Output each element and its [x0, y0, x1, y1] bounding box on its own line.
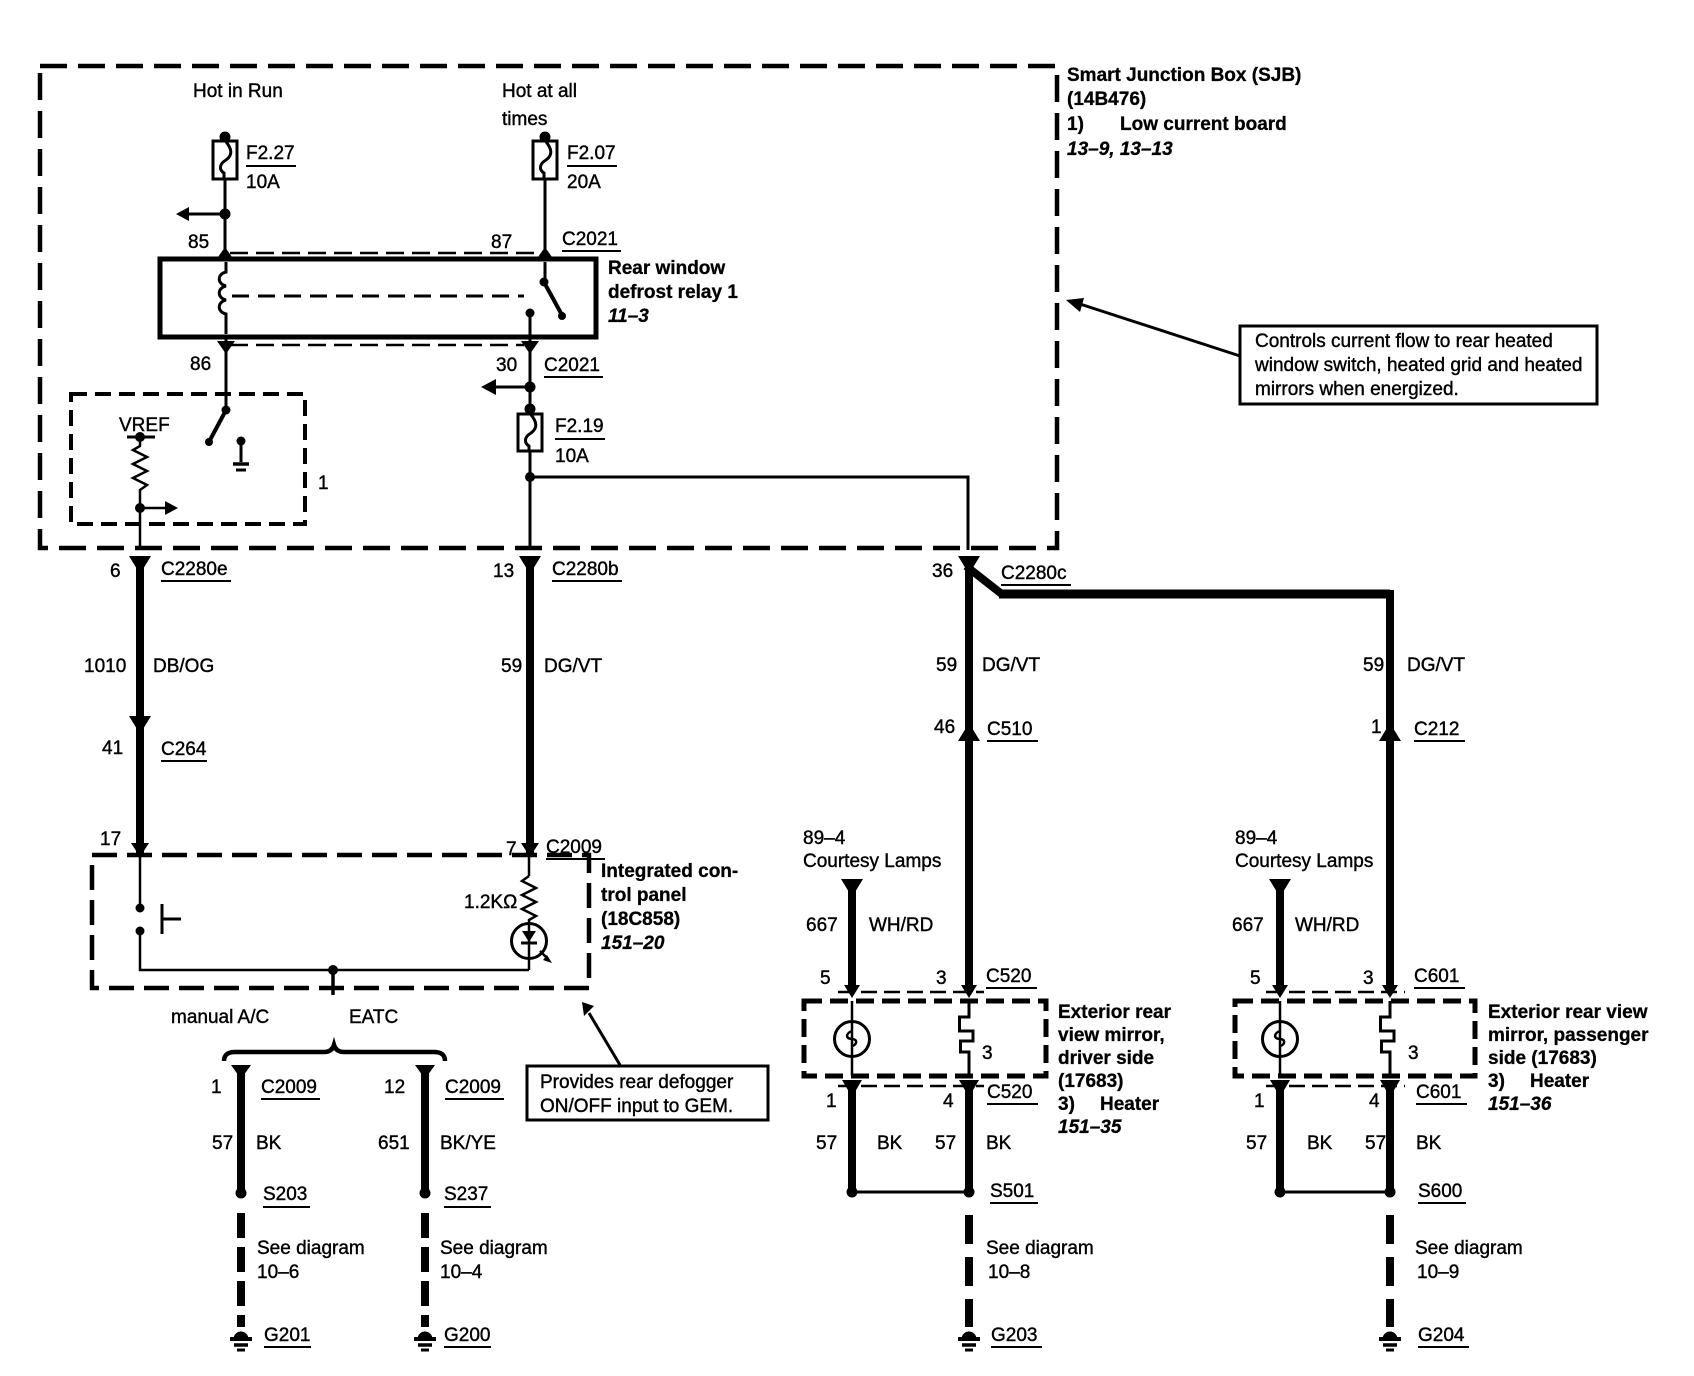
svg-text:trol panel: trol panel — [601, 885, 687, 906]
ICP name label — [601, 861, 738, 954]
ground G201 — [230, 1332, 252, 1351]
wire S501 to ground (off-page dashed) — [965, 1215, 973, 1327]
svg-text:DG/VT: DG/VT — [1407, 655, 1465, 676]
svg-text:1: 1 — [318, 473, 329, 494]
fuse F2.27 value label — [246, 143, 295, 193]
wire circuit 57 BK (passenger lamp) — [1276, 1083, 1284, 1192]
svg-text:89–4: 89–4 — [803, 828, 846, 849]
courtesy lamps feed label (driver) — [803, 828, 941, 872]
splice S600 — [1275, 1187, 1286, 1198]
svg-text:59: 59 — [936, 655, 957, 676]
svg-text:Rear window: Rear window — [608, 258, 725, 279]
pin 5 arrowhead — [844, 985, 860, 998]
svg-text:manual A/C: manual A/C — [171, 1007, 269, 1028]
svg-text:151–35: 151–35 — [1058, 1117, 1122, 1138]
svg-text:G204: G204 — [1418, 1325, 1465, 1346]
connector C2009 pin 12 — [384, 1077, 501, 1098]
svg-text:(17683): (17683) — [1058, 1071, 1124, 1092]
mirror name label (passenger) — [1488, 1002, 1649, 1115]
wire circuit 57 BK (passenger heater) — [1386, 1083, 1394, 1192]
svg-text:651: 651 — [378, 1133, 410, 1154]
svg-text:WH/RD: WH/RD — [869, 915, 933, 936]
connector C2280c pin 36 — [932, 561, 1067, 584]
wire F2.19 node to C2280c (horizontal) — [530, 477, 968, 550]
svg-text:defrost relay 1: defrost relay 1 — [608, 282, 738, 303]
svg-text:mirrors when energized.: mirrors when energized. — [1255, 379, 1459, 400]
svg-text:See diagram: See diagram — [986, 1238, 1094, 1259]
resistor 1.2K ohm — [528, 856, 531, 876]
svg-text:C2280b: C2280b — [552, 559, 619, 580]
Integrated control panel box — [92, 855, 589, 988]
svg-text:59: 59 — [1363, 655, 1384, 676]
svg-text:S203: S203 — [263, 1184, 307, 1205]
svg-text:3: 3 — [982, 1043, 993, 1064]
VREF terminal — [127, 436, 155, 439]
wire circuit 667 WH/RD (passenger) — [1276, 886, 1284, 986]
svg-text:5: 5 — [1250, 968, 1261, 989]
svg-text:C2021: C2021 — [562, 229, 618, 250]
EATC tap node — [328, 965, 338, 975]
pin 4 arrowhead (C520) — [959, 1080, 979, 1097]
power feed label: Hot at all times — [502, 81, 577, 130]
wire circuit 59 DG/VT (passenger run) — [1363, 655, 1465, 676]
svg-text:(14B476): (14B476) — [1067, 89, 1146, 110]
svg-text:6: 6 — [110, 561, 121, 582]
svg-text:41: 41 — [102, 738, 123, 759]
svg-text:C601: C601 — [1414, 966, 1459, 987]
svg-text:151–36: 151–36 — [1488, 1094, 1552, 1115]
branch wire with arrow (to GEM sense) — [140, 507, 167, 510]
pin 87 arrowhead — [536, 247, 554, 260]
pin 86 arrowhead — [217, 341, 235, 354]
svg-text:10–4: 10–4 — [440, 1262, 483, 1283]
callout arrow to SJB — [1080, 304, 1240, 356]
svg-text:4: 4 — [1369, 1091, 1380, 1112]
connector C2021 dashed line (top) — [230, 252, 540, 255]
svg-text:Integrated con-: Integrated con- — [601, 861, 738, 882]
svg-text:87: 87 — [491, 232, 512, 253]
connector C510 pin 46 — [934, 717, 1032, 740]
svg-text:S600: S600 — [1418, 1181, 1462, 1202]
branch wire with arrow at node 30 — [494, 386, 530, 389]
wire S600 to ground (off-page dashed) — [1386, 1215, 1394, 1327]
svg-text:WH/RD: WH/RD — [1295, 915, 1359, 936]
connector C601 (top) — [1250, 966, 1459, 989]
svg-text:Hot in Run: Hot in Run — [193, 81, 283, 102]
svg-text:20A: 20A — [567, 172, 601, 193]
svg-text:See diagram: See diagram — [440, 1238, 548, 1259]
svg-text:13: 13 — [493, 561, 514, 582]
svg-text:C2021: C2021 — [544, 355, 600, 376]
wire F2.19 node down to C2280b — [529, 451, 532, 550]
mirror courtesy lamp (passenger) — [1279, 1001, 1282, 1076]
svg-text:46: 46 — [934, 717, 955, 738]
svg-text:Hot at all: Hot at all — [502, 81, 577, 102]
mirror courtesy lamp (driver) — [851, 1001, 854, 1076]
connector C2021 label (top) — [562, 229, 618, 250]
pin 4 arrowhead (C601) — [1380, 1080, 1400, 1097]
pin 30 arrowhead — [521, 341, 539, 354]
svg-text:3): 3) — [1488, 1071, 1505, 1092]
svg-text:G203: G203 — [991, 1325, 1037, 1346]
wire F2.27 to relay pin 85 — [224, 179, 227, 252]
svg-text:See diagram: See diagram — [257, 1238, 365, 1259]
pin 85 arrowhead — [216, 247, 234, 260]
junction node above F2.19 — [525, 382, 536, 393]
Exterior rear view mirror driver side box — [804, 1001, 1046, 1076]
svg-text:59: 59 — [501, 656, 522, 677]
svg-text:S501: S501 — [990, 1181, 1034, 1202]
svg-text:driver side: driver side — [1058, 1048, 1154, 1069]
splice S237 — [420, 1188, 431, 1199]
wire circuit 59 DG/VT (center) — [526, 556, 534, 856]
svg-text:10A: 10A — [555, 446, 589, 467]
svg-text:86: 86 — [190, 354, 211, 375]
callout note: provides rear defogger input — [527, 1066, 768, 1120]
brace joining manual A/C and EATC grounds — [224, 1045, 445, 1061]
svg-text:10–8: 10–8 — [988, 1262, 1030, 1283]
wire circuit 59 DG/VT (driver side feed) — [965, 556, 973, 992]
pin 17 arrowhead — [131, 843, 149, 857]
svg-text:C2009: C2009 — [445, 1077, 501, 1098]
svg-text:3: 3 — [1408, 1043, 1419, 1064]
relay switch contact (pin 30) — [526, 309, 535, 318]
svg-text:F2.19: F2.19 — [555, 416, 604, 437]
mirror heater element (passenger) — [1381, 1001, 1395, 1076]
svg-text:F2.27: F2.27 — [246, 143, 295, 164]
indicator LED lamp — [512, 924, 547, 959]
svg-text:13–9, 13–13: 13–9, 13–13 — [1067, 139, 1173, 160]
Smart Junction Box (SJB) enclosure — [40, 66, 1057, 548]
svg-text:S237: S237 — [444, 1184, 488, 1205]
svg-text:C520: C520 — [987, 1082, 1032, 1103]
mirror heater element (driver) — [960, 1001, 974, 1076]
pin 7 arrowhead — [521, 843, 539, 857]
svg-text:5: 5 — [820, 968, 831, 989]
fuse F2.27 — [213, 132, 237, 180]
svg-text:3: 3 — [1363, 968, 1374, 989]
svg-text:BK: BK — [877, 1133, 903, 1154]
svg-text:10A: 10A — [246, 172, 280, 193]
svg-text:1: 1 — [1254, 1091, 1265, 1112]
branch wire with arrow (to other circuit) — [188, 213, 225, 216]
pushbutton actuator — [161, 904, 164, 934]
svg-text:C264: C264 — [161, 739, 207, 760]
connector C601 (bottom) — [1254, 1082, 1461, 1112]
connector C2280e pin 6 — [110, 559, 228, 582]
svg-text:1010: 1010 — [84, 656, 126, 677]
junction node below resistor — [135, 503, 145, 513]
svg-text:Heater: Heater — [1530, 1071, 1590, 1092]
svg-text:4: 4 — [943, 1091, 954, 1112]
fuse F2.07 value label — [567, 143, 616, 193]
svg-text:3): 3) — [1058, 1094, 1075, 1115]
svg-text:30: 30 — [496, 355, 517, 376]
connector C2009 pin 7 — [506, 837, 602, 860]
svg-text:side (17683): side (17683) — [1488, 1048, 1597, 1069]
connector C520 (top) — [820, 966, 1031, 989]
pin 13 arrowhead — [519, 556, 541, 574]
svg-text:Exterior rear: Exterior rear — [1058, 1002, 1172, 1023]
svg-text:times: times — [502, 109, 547, 130]
svg-text:BK: BK — [256, 1133, 282, 1154]
defogger pushbutton switch contacts — [136, 904, 145, 913]
svg-text:10–6: 10–6 — [257, 1262, 299, 1283]
svg-text:Exterior rear view: Exterior rear view — [1488, 1002, 1648, 1023]
pin 1 arrowhead (C212) — [1379, 723, 1401, 741]
svg-text:DB/OG: DB/OG — [153, 656, 214, 677]
svg-text:view mirror,: view mirror, — [1058, 1025, 1165, 1046]
svg-text:1): 1) — [1067, 114, 1084, 135]
junction node below F2.19 — [525, 472, 535, 482]
pin 1 arrowhead (C520) — [842, 1080, 862, 1097]
callout note: controls current flow — [1240, 326, 1597, 404]
LED indicator arrow — [540, 951, 548, 959]
svg-text:1.2KΩ: 1.2KΩ — [464, 892, 517, 913]
connector C2021 label (bottom) — [544, 355, 600, 376]
svg-text:VREF: VREF — [119, 415, 170, 436]
connector C2280b pin 13 — [493, 559, 619, 582]
svg-text:57: 57 — [1246, 1133, 1267, 1154]
svg-text:C2280c: C2280c — [1001, 563, 1067, 584]
splice S203 — [236, 1188, 247, 1199]
svg-text:57: 57 — [935, 1133, 956, 1154]
connector C520 (bottom) — [826, 1082, 1032, 1112]
connector C2009 pin 1 — [211, 1077, 317, 1098]
svg-text:1: 1 — [1371, 717, 1382, 738]
svg-text:1: 1 — [826, 1091, 837, 1112]
svg-text:57: 57 — [816, 1133, 837, 1154]
switch lever (defrost request) — [222, 406, 231, 415]
wire circuit 651 BK/YE — [421, 1066, 429, 1193]
wire relay pin 30 to fuse F2.19 — [529, 337, 532, 414]
svg-text:12: 12 — [384, 1077, 405, 1098]
wire circuit 57 BK (driver heater) — [965, 1083, 973, 1192]
switch module box inside SJB — [71, 394, 305, 524]
connector C601 dashed line (bottom) — [1266, 1085, 1405, 1088]
wire S203 to ground (off-page dashed) — [237, 1213, 245, 1327]
callout arrow to ICP — [589, 1013, 620, 1065]
svg-text:mirror, passenger: mirror, passenger — [1488, 1025, 1649, 1046]
courtesy lamps feed label (passenger) — [1235, 828, 1373, 872]
svg-text:89–4: 89–4 — [1235, 828, 1278, 849]
svg-text:BK: BK — [1416, 1133, 1442, 1154]
wire F2.07 to relay pin 87 — [544, 179, 547, 252]
svg-text:667: 667 — [1232, 915, 1264, 936]
svg-text:Low current board: Low current board — [1120, 114, 1287, 135]
switch fixed contact — [237, 437, 246, 446]
courtesy lamps feed arrowhead (passenger) — [1269, 879, 1291, 897]
relay switch pivot — [540, 278, 549, 287]
svg-text:Smart Junction Box (SJB): Smart Junction Box (SJB) — [1067, 65, 1301, 86]
svg-text:Courtesy Lamps: Courtesy Lamps — [803, 851, 941, 872]
pin 5 arrowhead (C601) — [1272, 985, 1288, 998]
svg-text:Controls current flow to rear: Controls current flow to rear heated — [1255, 331, 1553, 352]
svg-text:DG/VT: DG/VT — [982, 655, 1040, 676]
relay switch lever — [545, 284, 562, 315]
pin 46 arrowhead — [958, 723, 980, 741]
relay: Rear window defrost relay 1 — [160, 259, 596, 337]
wire S237 to ground (off-page dashed) — [421, 1213, 429, 1327]
svg-text:57: 57 — [1365, 1133, 1386, 1154]
fuse F2.07 — [533, 132, 557, 180]
pin 3 arrowhead — [961, 985, 977, 998]
relay coil — [219, 262, 226, 334]
svg-text:C212: C212 — [1414, 719, 1459, 740]
svg-text:11–3: 11–3 — [608, 306, 649, 327]
wire circuit 1010 DB/OG — [136, 556, 144, 856]
svg-text:57: 57 — [212, 1133, 233, 1154]
svg-text:See diagram: See diagram — [1415, 1238, 1523, 1259]
splice S501 — [847, 1187, 858, 1198]
SJB name label — [1067, 65, 1301, 160]
svg-text:C510: C510 — [987, 719, 1032, 740]
wire pin 17 into switch — [139, 857, 142, 908]
wire circuit 667 WH/RD (driver) — [848, 886, 856, 986]
svg-text:C601: C601 — [1416, 1082, 1461, 1103]
wire circuit 57 BK (driver lamp) — [848, 1083, 856, 1192]
svg-text:EATC: EATC — [349, 1007, 398, 1028]
pin 1 arrowhead — [231, 1065, 251, 1079]
svg-text:G201: G201 — [264, 1325, 310, 1346]
fuse F2.19 — [518, 404, 542, 452]
svg-text:BK: BK — [1307, 1133, 1333, 1154]
svg-text:667: 667 — [806, 915, 838, 936]
pin 6 arrowhead — [129, 556, 151, 574]
wire relay pin 86 to VREF switch — [225, 337, 228, 410]
svg-text:BK/YE: BK/YE — [440, 1133, 496, 1154]
svg-text:Provides rear defogger: Provides rear defogger — [540, 1072, 734, 1093]
svg-text:(18C858): (18C858) — [601, 909, 680, 930]
pin 41 arrowhead — [129, 716, 151, 734]
wire switch to ground rail — [140, 931, 529, 970]
pin 3 arrowhead (C601) — [1382, 985, 1398, 998]
svg-text:Courtesy Lamps: Courtesy Lamps — [1235, 851, 1373, 872]
relay linkage (dashed) — [232, 295, 524, 298]
pin 12 arrowhead — [415, 1065, 435, 1079]
svg-text:36: 36 — [932, 561, 953, 582]
connector C520 dashed line (bottom) — [838, 1085, 984, 1088]
connector C2021 dashed line (bottom) — [230, 344, 524, 347]
svg-text:10–9: 10–9 — [1417, 1262, 1459, 1283]
pin 36 arrowhead — [958, 556, 980, 574]
ground G200 — [414, 1332, 436, 1351]
mirror name label (driver) — [1058, 1002, 1172, 1138]
pin 1 arrowhead (C601) — [1270, 1080, 1290, 1097]
ground G203 — [958, 1332, 980, 1351]
connector C520 dashed line (top) — [838, 991, 984, 994]
svg-text:Heater: Heater — [1100, 1094, 1160, 1115]
ground G204 — [1379, 1332, 1401, 1351]
Exterior rear view mirror passenger side box — [1235, 1001, 1475, 1076]
wire circuit 57 BK — [237, 1066, 245, 1193]
svg-text:85: 85 — [188, 232, 209, 253]
connector C601 dashed line (top) — [1266, 991, 1405, 994]
fuse F2.19 value label — [555, 416, 604, 467]
svg-text:3: 3 — [936, 968, 947, 989]
svg-text:G200: G200 — [444, 1325, 490, 1346]
svg-text:C520: C520 — [986, 966, 1031, 987]
svg-text:17: 17 — [100, 829, 121, 850]
connector C264 pin 41 — [102, 738, 207, 760]
svg-text:151–20: 151–20 — [601, 933, 665, 954]
svg-text:window switch, heated grid and: window switch, heated grid and heated — [1254, 355, 1582, 376]
courtesy lamps feed arrowhead — [841, 879, 863, 897]
svg-text:1: 1 — [211, 1077, 222, 1098]
svg-text:BK: BK — [986, 1133, 1012, 1154]
svg-text:DG/VT: DG/VT — [544, 656, 602, 677]
wire pin 87 to switch pivot — [544, 262, 547, 282]
svg-text:C2280e: C2280e — [161, 559, 228, 580]
connector C212 pin 1 — [1371, 717, 1459, 740]
resistor (VREF pull-up) — [133, 437, 147, 497]
junction node below F2.27 — [220, 209, 231, 220]
svg-text:F2.07: F2.07 — [567, 143, 616, 164]
svg-text:ON/OFF input to GEM.: ON/OFF input to GEM. — [540, 1096, 733, 1117]
bus branch to passenger side — [966, 566, 1003, 595]
svg-text:C2009: C2009 — [261, 1077, 317, 1098]
wire node to connector C2280e — [139, 508, 142, 550]
relay name label — [608, 258, 738, 327]
